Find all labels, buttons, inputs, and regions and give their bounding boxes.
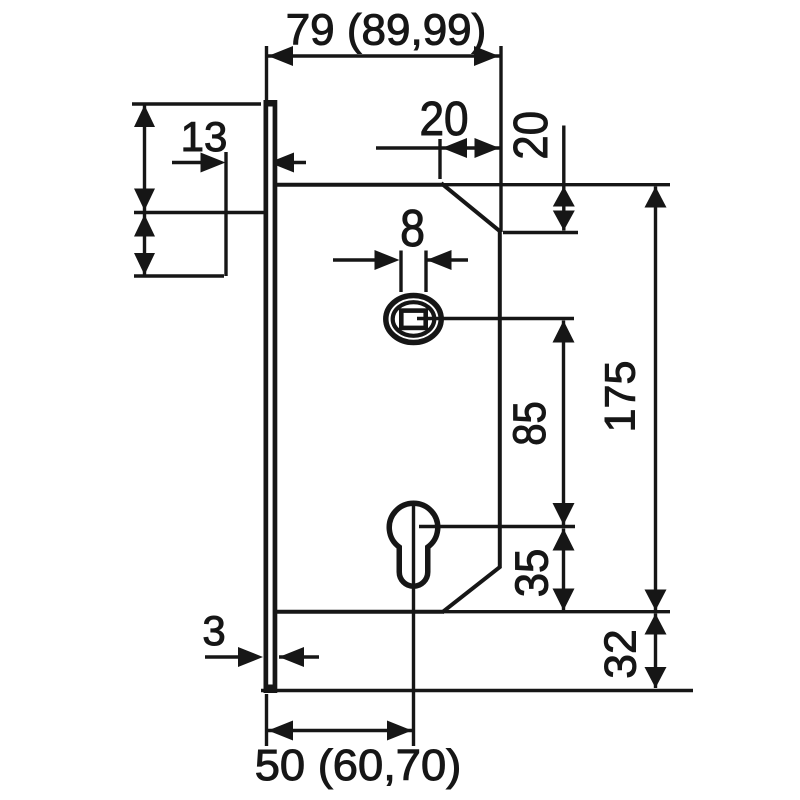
svg-text:13: 13 [181, 113, 228, 160]
svg-text:79 (89,99): 79 (89,99) [286, 6, 487, 55]
svg-text:175: 175 [596, 361, 644, 433]
svg-text:85: 85 [505, 401, 556, 446]
svg-text:20: 20 [503, 111, 558, 160]
svg-text:32: 32 [596, 629, 645, 679]
svg-text:8: 8 [400, 200, 425, 258]
svg-text:20: 20 [419, 91, 468, 145]
svg-text:50 (60,70): 50 (60,70) [255, 742, 462, 790]
svg-text:35: 35 [505, 549, 557, 598]
svg-text:3: 3 [202, 607, 225, 654]
